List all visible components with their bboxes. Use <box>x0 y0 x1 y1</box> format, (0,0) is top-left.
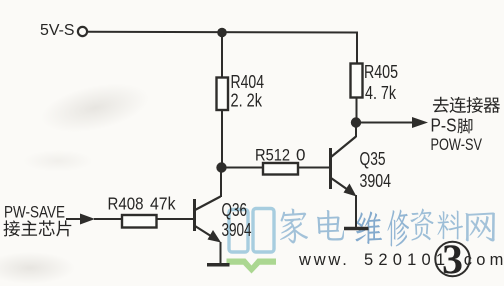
label R404 2.2k <box>231 72 265 111</box>
svg-text:P-S: P-S <box>431 116 457 136</box>
arrow: output to connector <box>356 117 428 128</box>
terminal 5V-S <box>78 27 87 36</box>
svg-text:3904: 3904 <box>222 220 252 240</box>
wire Q35 emitter to ground <box>355 195 357 228</box>
wire Q35 collector to node C <box>355 123 357 137</box>
wire 5V-S rail <box>87 32 357 64</box>
label R405 4.7k <box>364 62 398 103</box>
ground (Q35) <box>344 227 369 231</box>
label 接主芯片 <box>3 220 71 236</box>
arrow: PW-SAVE input <box>66 214 122 225</box>
svg-text:47k: 47k <box>150 194 176 214</box>
resistor R404 <box>217 78 229 111</box>
svg-text:3: 3 <box>442 238 463 284</box>
svg-text:PW-SAVE: PW-SAVE <box>4 203 65 222</box>
svg-text:R408: R408 <box>108 194 144 214</box>
figure number 3 (circled) <box>435 238 469 284</box>
label Q36 3904 <box>222 200 252 240</box>
resistor R405 <box>351 64 363 98</box>
svg-text:R404: R404 <box>231 72 265 92</box>
svg-text:3904: 3904 <box>360 171 392 191</box>
node C: R405 / Q35 collector / output <box>351 117 361 127</box>
wire R404 bottom lead <box>221 110 223 167</box>
svg-text:Q35: Q35 <box>360 149 386 169</box>
wire node B to R512 <box>222 167 263 169</box>
wire Q36 collector to node B <box>220 168 222 197</box>
svg-text:R512: R512 <box>255 146 290 165</box>
transistor Q35 <box>331 137 357 197</box>
wire R408 to Q36 base <box>157 218 195 220</box>
label R512 0 <box>255 146 305 165</box>
node A: rail to R404 <box>217 28 227 38</box>
svg-text:0: 0 <box>296 146 305 165</box>
ground (Q36) <box>207 263 230 267</box>
svg-text:R405: R405 <box>364 62 398 82</box>
wire R512 to Q35 base <box>298 167 330 169</box>
label PW-SAVE <box>4 203 65 222</box>
svg-text:5V-S: 5V-S <box>40 22 75 39</box>
resistor R408 <box>122 215 157 228</box>
label 5V-S <box>40 22 75 39</box>
label 去连接器 <box>433 97 500 113</box>
wire R405 bottom lead <box>356 98 358 119</box>
transistor Q36 <box>195 197 222 243</box>
svg-text:www.: www. <box>298 251 350 269</box>
svg-text:4. 7k: 4. 7k <box>365 83 397 103</box>
label P-S脚 <box>431 116 473 136</box>
watermark text 家电维修资料网 <box>280 208 495 246</box>
wire Q36 emitter to ground <box>220 242 222 263</box>
node B: R404 / R512 / Q36 collector <box>216 162 226 172</box>
wire R404 top lead <box>221 33 223 78</box>
svg-text:POW-SV: POW-SV <box>431 136 483 154</box>
watermark url www.520101.com <box>298 251 504 269</box>
label R408 47k <box>108 194 176 214</box>
label Q35 3904 <box>360 149 392 191</box>
resistor R512 <box>263 163 298 175</box>
label POW-SV <box>431 136 483 154</box>
svg-text:2. 2k: 2. 2k <box>231 91 263 111</box>
svg-text:Q36: Q36 <box>222 200 248 220</box>
watermark logo: open book <box>227 209 277 274</box>
